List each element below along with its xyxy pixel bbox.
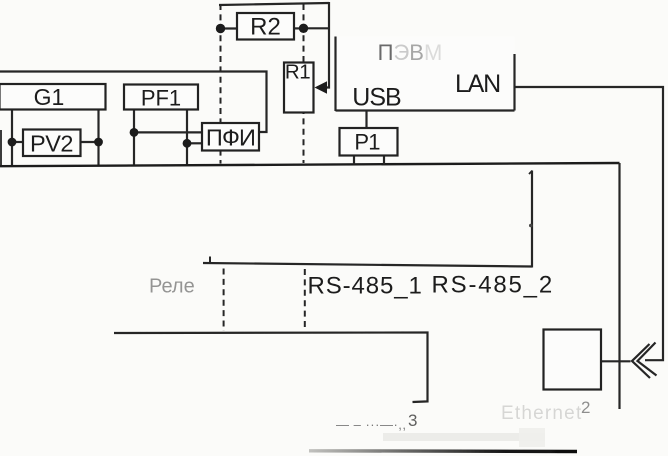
- wire: G1 left lead down to PV2 node: [11, 109, 13, 142]
- node: R2 right junction: [299, 24, 308, 33]
- wire: node to long line (left): [11, 142, 13, 166]
- scan smudge band: [383, 433, 545, 441]
- Ethernet connector box: [544, 330, 602, 390]
- wire: right vertical drop from long line: [618, 163, 620, 409]
- junction blemish on vertical link: [529, 224, 533, 228]
- svg-text:RS-485_2: RS-485_2: [432, 272, 554, 299]
- svg-text:PV2: PV2: [30, 131, 73, 157]
- resistor R2: [237, 13, 294, 41]
- voltmeter PV2: [23, 130, 81, 157]
- wire: USB link PEVM to P1: [365, 110, 367, 128]
- node: PV2 left: [8, 138, 17, 147]
- svg-text:ПЭВМ: ПЭВМ: [378, 40, 443, 65]
- svg-text:P1: P1: [354, 130, 380, 155]
- filter PF1: [124, 85, 198, 111]
- dashed bus line left (x=220): [220, 4, 222, 164]
- wire: node to PFI input lower: [187, 142, 202, 144]
- svg-text:USB: USB: [352, 84, 401, 112]
- wire: vertical feed to R1 arrow: [317, 2, 329, 88]
- wire: P1 lead right to long line: [383, 155, 385, 165]
- wire: PF1 right lead down to long line: [186, 109, 188, 165]
- pulse shaper PFI: [202, 123, 259, 151]
- converter P1: [340, 128, 398, 156]
- chevron plug symbol: [632, 343, 657, 379]
- wire: left page-edge stub: [0, 130, 2, 165]
- svg-text:Реле: Реле: [149, 276, 195, 298]
- wire: R2 right side to dot: [294, 27, 304, 29]
- svg-text:PF1: PF1: [141, 85, 181, 110]
- wire: node to PFI input upper: [134, 131, 202, 133]
- wire: vertical link from long line to channel: [531, 171, 533, 268]
- node: PV2 right: [94, 138, 103, 147]
- computer PEVM box: [335, 37, 515, 112]
- wire: LAN loop to Ethernet box: [514, 87, 663, 360]
- generator G1: [0, 84, 106, 110]
- dashed divider lower left (x=223.6): [223, 269, 225, 332]
- svg-text:R1: R1: [285, 61, 310, 84]
- wire: Ethernet box to plug tip: [601, 360, 631, 362]
- svg-text:G1: G1: [34, 84, 65, 110]
- resistor R1: [284, 61, 314, 113]
- wire: RS-485 channel top line: [203, 263, 532, 267]
- wire: top-left horizontal rail above G1/PF1: [0, 72, 267, 133]
- svg-text:Ethernet: Ethernet: [501, 403, 582, 424]
- svg-text:R2: R2: [250, 14, 281, 41]
- wire: PF1 left lead down to long line: [133, 109, 135, 165]
- wire: PV2 left lead: [12, 141, 23, 143]
- wire: left dot to R2: [220, 27, 238, 29]
- wire: G1 right lead down through PV2 node to long line: [97, 109, 99, 166]
- wire: lower block top edge: [114, 333, 428, 403]
- node: R2 left junction: [216, 24, 225, 33]
- wire: PV2 right lead: [80, 141, 99, 143]
- dashed divider lower right (x=304.8): [304, 269, 306, 331]
- node: PF1 left lead: [130, 128, 139, 137]
- wire: long horizontal bus line: [0, 163, 620, 166]
- wire: top horizontal line above R2: [219, 3, 329, 5]
- node: PF1 right lead: [183, 139, 192, 148]
- svg-text:LAN: LAN: [455, 70, 500, 98]
- svg-text:ПФИ: ПФИ: [206, 125, 255, 151]
- svg-text:— – ···—·,,: — – ···—·,,: [336, 417, 407, 432]
- wire: P1 lead left to long line: [353, 155, 355, 165]
- wire: channel left end tick: [209, 257, 211, 265]
- wire: R2 right dot to vertical feed: [304, 27, 331, 29]
- svg-text:2: 2: [581, 398, 590, 417]
- svg-text:3: 3: [408, 411, 417, 430]
- dashed bus line right (x=303.5): [303, 4, 305, 163]
- bottom scan line: [309, 449, 577, 453]
- arrowhead into R1: [315, 81, 328, 93]
- svg-text:RS-485_1: RS-485_1: [308, 273, 423, 300]
